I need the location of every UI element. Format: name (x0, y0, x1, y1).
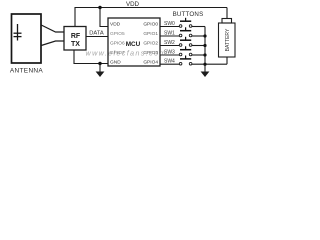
RF TX block (64, 27, 86, 51)
wire RF TX ground to MCU GND (74, 50, 108, 64)
wire antenna to RF TX (upper) (41, 25, 64, 32)
wire battery negative to bus (226, 57, 228, 64)
node junction on VDD rail (98, 6, 101, 9)
ground symbol right (201, 72, 210, 78)
switch SW3 (160, 46, 205, 56)
switch SW2 (160, 37, 205, 47)
svg-text:GPIO6: GPIO6 (110, 41, 125, 47)
svg-text:SW2: SW2 (164, 40, 175, 46)
switch SW1 (160, 27, 205, 37)
svg-text:GPIO4: GPIO4 (143, 60, 158, 66)
svg-text:GND: GND (110, 60, 121, 66)
svg-text:VDD: VDD (110, 22, 121, 28)
antenna box (12, 14, 42, 63)
node bus junction SW1 (203, 34, 206, 37)
svg-text:GPIO0: GPIO0 (143, 22, 158, 28)
svg-text:GPIO2: GPIO2 (143, 41, 158, 47)
svg-text:ANTENNA: ANTENNA (10, 68, 44, 75)
antenna element symbol (14, 24, 22, 41)
label BUTTONS (173, 11, 204, 18)
svg-text:SW4: SW4 (164, 59, 175, 65)
svg-text:BUTTONS: BUTTONS (173, 11, 204, 18)
svg-text:MCU: MCU (126, 41, 141, 48)
node junction on GND wire (98, 62, 101, 65)
svg-text:VDD: VDD (126, 1, 140, 8)
wire antenna to RF TX (lower) (41, 41, 64, 46)
net label DATA (89, 31, 104, 37)
svg-text:TX: TX (71, 41, 80, 48)
VDD rail wire (75, 8, 227, 27)
svg-text:GPIO1: GPIO1 (143, 31, 158, 37)
MCU U1 block (108, 18, 160, 66)
svg-text:BATTERY: BATTERY (225, 28, 231, 51)
node bus junction SW2 (203, 44, 206, 47)
watermark (86, 49, 167, 58)
wire VDD rail to MCU VDD pin (100, 8, 108, 27)
svg-text:DATA: DATA (89, 31, 104, 37)
svg-text:SW1: SW1 (164, 31, 175, 37)
switch SW0 (160, 18, 205, 28)
svg-text:GPIO5: GPIO5 (110, 31, 125, 37)
wire DATA RF TX to MCU (86, 36, 108, 38)
ground symbol left (96, 64, 105, 78)
svg-text:RF: RF (71, 33, 81, 40)
svg-text:www.elecfans.com: www.elecfans.com (86, 49, 167, 58)
wire switch common bus (204, 27, 206, 72)
svg-text:SW0: SW0 (164, 21, 175, 27)
battery BT1 (219, 8, 236, 58)
switch SW4 (160, 56, 227, 66)
label ANTENNA (10, 68, 44, 75)
net label VDD (126, 1, 140, 8)
node bus junction SW4 (203, 63, 206, 66)
node bus junction SW3 (203, 53, 206, 56)
